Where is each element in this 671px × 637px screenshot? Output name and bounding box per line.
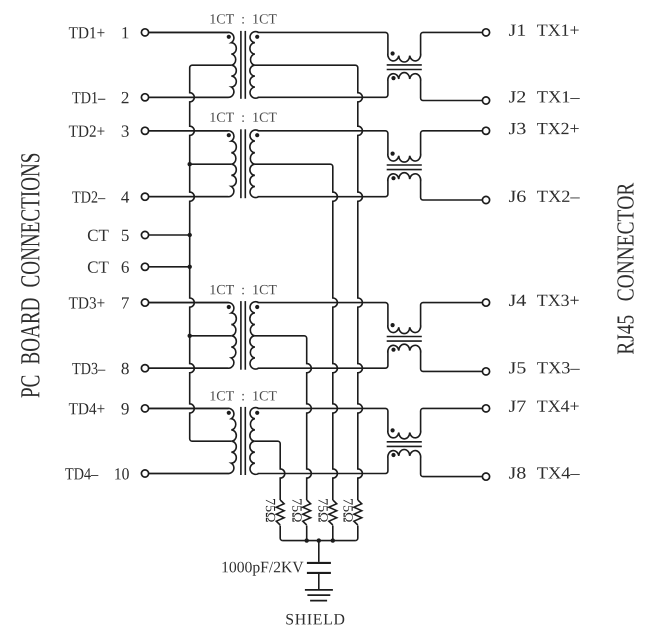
transformer T1 phase dots: [227, 35, 231, 39]
transformer T2 secondary winding: [250, 130, 259, 198]
pin J8 label: [509, 467, 526, 479]
wire choke to pin J2: [423, 100, 482, 102]
transformer T3 core: [240, 301, 242, 370]
transformer T1 core: [240, 31, 242, 99]
resistor R4 value label 75ohm: [343, 499, 352, 522]
resistor R1 lead: [280, 526, 283, 541]
wire pin 4 to winding: [149, 196, 229, 198]
wire T2 secondary center tap to resistor: [255, 164, 338, 500]
resistor R3 lead: [332, 526, 334, 541]
choke L3 phase dots: [391, 323, 395, 327]
wire T3 secondary bottom to choke: [258, 367, 386, 369]
resistor R1 75ohm: [276, 500, 284, 525]
transformer T1 primary winding: [149, 32, 237, 97]
wire pin 8 to winding: [149, 367, 229, 369]
node junction R2-bus: [305, 538, 309, 542]
resistor R3 value label 75ohm: [318, 499, 327, 522]
pin 10 circle: [141, 470, 148, 477]
pin 9 circle: [141, 405, 148, 412]
transformer T3 phase dots: [227, 305, 231, 309]
pin J2 label: [509, 91, 525, 103]
choke L2 bottom winding: [385, 173, 423, 200]
pin TD4+ 9 label: [69, 403, 105, 414]
transformer T4 ratio label 1CT:1CT: [210, 391, 276, 401]
wire T2 secondary top to choke: [258, 130, 386, 132]
right caption RJ45 CONNECTOR: [617, 183, 633, 354]
ground shield symbol: [305, 589, 333, 591]
wire choke to pin J7: [423, 407, 482, 409]
left caption PC BOARD CONNECTIONS: [21, 154, 40, 398]
pin 7 circle: [141, 299, 148, 306]
transformer T4 secondary winding: [250, 408, 259, 475]
pin 2 circle: [141, 94, 148, 101]
wire T1 secondary center tap to resistor: [255, 65, 363, 500]
wire choke to pin J3: [423, 130, 482, 132]
pin 6 circle: [141, 263, 148, 270]
resistor R2 lead: [306, 526, 308, 541]
wire pin 9 to winding: [149, 407, 229, 409]
wire T4 secondary center tap to resistor: [255, 441, 285, 500]
wire T3 primary center tap: [190, 335, 232, 337]
choke L4 phase dots: [391, 428, 395, 432]
transformer T1 secondary winding: [250, 32, 259, 99]
pin J2 circle: [482, 97, 489, 104]
pin TD3- 8 label: [72, 363, 105, 375]
pin CT 5 label: [88, 230, 109, 242]
pin J3 circle: [482, 127, 489, 134]
wire pin 3 to winding: [149, 130, 229, 132]
pin 8 circle: [141, 365, 148, 372]
wire pin 6 to CT bus: [149, 266, 190, 268]
pin J5 label: [509, 362, 526, 373]
choke L1 bottom winding: [385, 73, 423, 101]
pin J6 circle: [482, 196, 489, 203]
pin J6 label: [509, 191, 526, 203]
choke L3 bottom winding: [385, 344, 423, 371]
transformer T3 ratio label 1CT:1CT: [210, 285, 276, 295]
wire choke to pin J8: [423, 476, 482, 478]
wire T4 secondary top to choke: [258, 407, 386, 409]
wire T1 secondary bottom to choke: [258, 96, 386, 98]
wire choke to pin J4: [423, 302, 482, 304]
resistor R4 lead: [355, 526, 358, 541]
choke L1 core: [387, 64, 422, 66]
wire left CT bus (T1 ct to T4 ct): [190, 65, 232, 441]
pin TD2- 4 label: [72, 191, 105, 202]
transformer T3 primary winding: [149, 303, 237, 369]
resistor R3 75ohm: [329, 500, 337, 525]
node junction CT5: [188, 233, 192, 237]
capacitor C1 1000pF/2KV: [307, 562, 331, 564]
pin J5 circle: [482, 368, 489, 375]
pin TD3+ 7 label: [69, 297, 105, 309]
transformer T1 ratio label 1CT:1CT: [210, 14, 276, 24]
resistor R2 value label 75ohm: [292, 499, 301, 522]
resistor R2 75ohm: [303, 500, 311, 525]
wire pin 7 to winding: [149, 302, 229, 304]
wire bus to capacitor: [318, 541, 320, 562]
wire choke to pin J1: [423, 31, 482, 33]
transformer T2 ratio label 1CT:1CT: [210, 113, 276, 123]
transformer T3 secondary winding: [250, 302, 259, 369]
pin J4 circle: [482, 299, 489, 306]
transformer T2 core: [240, 129, 242, 198]
wire T3 secondary center tap to resistor: [255, 336, 311, 500]
wire resistor common bus: [283, 540, 356, 542]
transformer T4 core: [240, 407, 242, 475]
pin J8 circle: [482, 473, 489, 480]
pin J4 label: [509, 295, 526, 306]
node junction CT6: [188, 265, 192, 269]
transformer T2 phase dots: [227, 133, 231, 137]
pin J1 label: [509, 25, 525, 36]
choke L2 core: [387, 164, 422, 166]
pin 1 circle: [141, 29, 148, 36]
pin J7 label: [509, 401, 526, 412]
node junction R3-bus: [331, 538, 335, 542]
resistor R1 value label 75ohm: [266, 499, 275, 522]
choke L3 core: [387, 336, 422, 338]
choke L1 phase dots: [391, 51, 395, 55]
transformer T4 phase dots: [227, 411, 231, 415]
wire T1 secondary top to choke: [258, 31, 386, 33]
pin TD1+ 1 label: [69, 27, 105, 38]
pin 3 circle: [141, 127, 148, 134]
resistor R4 75ohm: [354, 500, 362, 525]
wire T4 secondary bottom to choke: [258, 473, 386, 475]
wire pin 2 to winding: [149, 96, 229, 98]
wire T2 primary center tap: [190, 163, 232, 165]
wire T2 secondary bottom to choke: [258, 196, 386, 198]
choke L4 bottom winding: [385, 450, 423, 477]
choke L1 top winding: [385, 32, 423, 62]
wire pin 5 to CT bus: [149, 234, 190, 236]
pin J3 label: [509, 123, 526, 135]
node junction T3 ct: [188, 334, 192, 338]
transformer T4 primary winding: [149, 408, 237, 473]
choke L4 top winding: [385, 408, 423, 439]
node junction T2 ct: [188, 162, 192, 166]
wire T3 secondary top to choke: [258, 302, 386, 304]
capacitor value label: [222, 562, 303, 576]
transformer T2 primary winding: [149, 131, 237, 197]
choke L4 core: [387, 441, 422, 443]
pin J7 circle: [482, 405, 489, 412]
pin 4 circle: [141, 193, 148, 200]
pin TD2+ 3 label: [69, 125, 105, 136]
choke L3 top winding: [385, 303, 423, 334]
pin TD1- 2 label: [72, 92, 105, 103]
pin J1 circle: [482, 29, 489, 36]
wire choke to pin J5: [423, 370, 482, 372]
shield label: [286, 614, 344, 625]
wire capacitor to shield: [318, 574, 320, 589]
wire pin 1 to winding: [149, 31, 229, 33]
pin TD4- 10 label: [65, 468, 98, 479]
pin 5 circle: [141, 231, 148, 238]
pin CT 6 label: [88, 261, 109, 273]
wire pin 10 to winding: [149, 473, 229, 475]
choke L2 phase dots: [391, 152, 395, 156]
wire choke to pin J6: [423, 199, 482, 201]
node junction cap-bus: [317, 538, 321, 542]
choke L2 top winding: [385, 131, 423, 162]
